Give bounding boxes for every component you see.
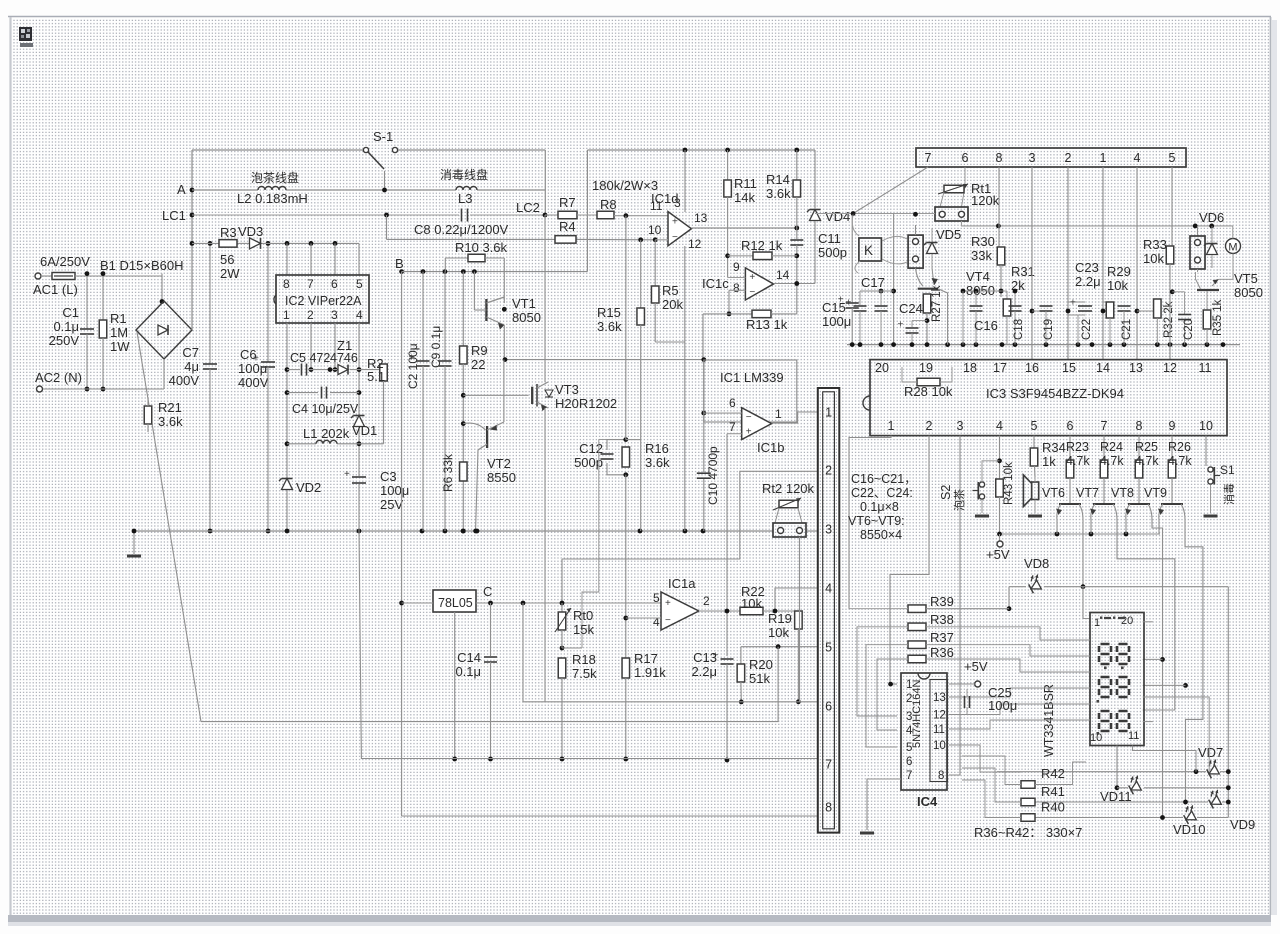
svg-text:VD6: VD6: [1199, 210, 1224, 225]
wire IC2 pin4 column: [358, 323, 360, 476]
transistor VT5: [1197, 289, 1219, 291]
resistor R18: [558, 658, 566, 678]
resistor R20: [740, 647, 742, 664]
svg-text:−: −: [746, 412, 752, 423]
svg-text:VD1: VD1: [352, 423, 377, 438]
transistor VT8: [1138, 478, 1140, 503]
svg-text:R9: R9: [471, 343, 488, 358]
resistor R34: [1033, 436, 1035, 448]
wire AC1 to bridge: [161, 274, 163, 301]
wire Rt2 to bus6: [799, 537, 801, 702]
svg-text:51k: 51k: [749, 671, 770, 686]
capacitor C3: [352, 476, 366, 478]
wire VT3 collector emitter: [544, 215, 546, 382]
ground main: [133, 531, 135, 554]
svg-text:12: 12: [1163, 361, 1177, 375]
svg-text:3.6k: 3.6k: [645, 455, 670, 470]
svg-text:11: 11: [1199, 361, 1212, 375]
svg-text:2: 2: [1065, 151, 1072, 165]
svg-text:100μ: 100μ: [988, 698, 1017, 713]
svg-text:+: +: [672, 216, 678, 227]
svg-text:4: 4: [996, 419, 1003, 433]
svg-text:R39: R39: [930, 594, 954, 609]
capacitor C18: [1014, 291, 1016, 305]
svg-text:R29: R29: [1107, 264, 1131, 279]
node top rail dots: [683, 148, 688, 153]
svg-text:R19: R19: [768, 611, 792, 626]
display digits row3: [1099, 711, 1111, 731]
wire 78L05 gnd: [454, 612, 456, 759]
IC1 LM339 box: [704, 360, 797, 422]
node R4 line dots: [638, 237, 643, 242]
wire bridge minus diagonal: [137, 332, 201, 722]
svg-text:IC2 VIPer22A: IC2 VIPer22A: [285, 294, 362, 308]
wire IC4 right routes: [949, 688, 1083, 697]
svg-text:2: 2: [307, 308, 314, 322]
thermistor Rt0: [561, 603, 563, 612]
resistor R41: [1021, 798, 1035, 806]
svg-text:0.1μ: 0.1μ: [53, 319, 79, 334]
capacitor C10: [697, 472, 711, 474]
svg-text:100μ: 100μ: [822, 314, 851, 329]
svg-text:R42: R42: [1041, 766, 1065, 781]
resistor R40: [1021, 814, 1035, 822]
relay K: [859, 238, 882, 261]
svg-text:2: 2: [926, 419, 933, 433]
wire relay row line: [962, 221, 1233, 226]
svg-text:78L05: 78L05: [438, 596, 473, 610]
resistor R32: [1137, 310, 1157, 312]
svg-text:0.1μ×8: 0.1μ×8: [860, 500, 899, 514]
svg-text:25V: 25V: [380, 497, 403, 512]
ground S2: [975, 515, 989, 518]
svg-text:5: 5: [1031, 419, 1038, 433]
svg-text:9: 9: [1169, 419, 1176, 433]
LED VD8: [1009, 586, 1026, 588]
svg-text:5: 5: [825, 641, 832, 655]
LED VD7: [997, 771, 1206, 773]
svg-text:Rt2 120k: Rt2 120k: [762, 481, 815, 496]
svg-text:7: 7: [906, 770, 912, 782]
svg-text:IC1a: IC1a: [668, 576, 696, 591]
svg-text:8: 8: [996, 151, 1003, 165]
wire IC1a output: [699, 610, 740, 612]
svg-text:5: 5: [1169, 151, 1176, 165]
svg-text:IC1b: IC1b: [757, 440, 784, 455]
resistor R27: [923, 294, 931, 313]
svg-text:C22、C24:: C22、C24:: [851, 486, 913, 500]
svg-text:100μ: 100μ: [380, 483, 409, 498]
wire main ground rail bus3: [134, 530, 773, 532]
resistor R14: [796, 150, 798, 180]
zener VD1: [354, 416, 365, 427]
svg-text:500p: 500p: [818, 245, 847, 260]
svg-text:R13 1k: R13 1k: [746, 317, 788, 332]
svg-text:10k: 10k: [768, 625, 789, 640]
capacitor C8: [461, 209, 463, 222]
svg-text:R3: R3: [220, 225, 237, 240]
resistor R43: [996, 479, 1004, 497]
display side ticks: [1083, 639, 1090, 641]
thermistor Rt1: [944, 185, 964, 193]
resistor R12: [725, 253, 730, 258]
ground speaker: [1028, 515, 1042, 518]
wire VD4 node to plug: [815, 213, 935, 215]
svg-text:1: 1: [283, 308, 290, 322]
svg-text:R20: R20: [749, 657, 773, 672]
page right border: [1270, 17, 1272, 915]
page bottom shadow: [8, 915, 1271, 922]
svg-text:C24: C24: [899, 301, 923, 316]
svg-text:5: 5: [906, 742, 912, 754]
svg-text:12: 12: [688, 237, 702, 251]
wire right vertical x545: [544, 150, 546, 215]
motor M: [1226, 239, 1241, 254]
resistor R22: [740, 607, 763, 615]
wire IC1c plus input: [728, 277, 746, 279]
svg-text:C16: C16: [974, 318, 998, 333]
transistor VT2: [461, 421, 466, 426]
svg-text:R27 1k: R27 1k: [931, 285, 943, 322]
resistor R25: [1138, 436, 1140, 460]
svg-text:R17: R17: [634, 651, 658, 666]
LED VD9: [1035, 801, 1208, 803]
wire C12 top column: [582, 440, 607, 648]
svg-text:R38: R38: [930, 612, 954, 627]
svg-text:B: B: [395, 256, 404, 271]
plug VD5: [908, 235, 923, 268]
resistor R13: [703, 313, 752, 315]
svg-text:R18: R18: [572, 652, 596, 667]
svg-text:K: K: [864, 243, 873, 258]
resistor R17: [622, 658, 630, 678]
svg-text:C23: C23: [1075, 260, 1099, 275]
svg-text:4μ: 4μ: [184, 359, 199, 374]
svg-text:3: 3: [906, 711, 912, 723]
wire pin4 column x1137: [1136, 167, 1138, 360]
capacitor C12: [607, 440, 626, 450]
capacitor C13: [721, 658, 734, 660]
wire VT4 emitter: [938, 289, 948, 345]
svg-text:4: 4: [825, 582, 832, 596]
wire top rail: [192, 149, 363, 151]
wire left vertical main: [191, 150, 193, 330]
svg-text:VT7: VT7: [1076, 486, 1099, 500]
resistor R2: [383, 364, 385, 370]
wire IC2 pin2 stub: [310, 323, 312, 370]
capacitor C11: [796, 228, 798, 239]
svg-text:15: 15: [1062, 361, 1076, 375]
svg-text:9: 9: [733, 260, 740, 274]
svg-text:C14: C14: [457, 650, 481, 665]
op-amp IC1a: [661, 592, 699, 630]
op-amp IC1b: [742, 408, 772, 440]
wire 5V emitter line: [1000, 533, 1161, 535]
svg-text:4: 4: [356, 308, 363, 322]
svg-text:+: +: [838, 295, 844, 306]
wire R38 right route: [926, 627, 1083, 640]
wire bus6 line: [523, 603, 818, 702]
svg-text:VD2: VD2: [296, 480, 321, 495]
svg-text:VT3: VT3: [555, 382, 579, 397]
svg-text:11: 11: [1128, 730, 1139, 742]
resistor R3: [219, 240, 237, 248]
svg-text:7: 7: [729, 420, 736, 434]
svg-text:1.91k: 1.91k: [634, 665, 666, 680]
capacitor C14: [490, 603, 492, 656]
wire VT6 collector: [1082, 520, 1084, 587]
wire top rail right segment: [587, 149, 815, 151]
svg-text:17: 17: [993, 361, 1007, 375]
zener VD4: [814, 150, 816, 208]
svg-text:+: +: [898, 320, 904, 331]
svg-text:C11: C11: [818, 231, 841, 246]
svg-text:7: 7: [925, 151, 932, 165]
zener VD6: [1207, 244, 1218, 255]
diode VD3: [250, 238, 261, 249]
speaker HTD: [1032, 482, 1039, 500]
wire display bottom to VD11: [1116, 746, 1118, 788]
inductor L1: [316, 440, 337, 443]
svg-text:4: 4: [653, 615, 660, 629]
wire bus7 line: [359, 531, 818, 759]
zener VD5: [927, 243, 938, 254]
svg-text:C13: C13: [693, 650, 717, 665]
svg-text:C4 10μ/25V: C4 10μ/25V: [292, 402, 359, 416]
svg-text:3: 3: [957, 419, 964, 433]
page left border: [9, 17, 11, 915]
capacitor C4: [321, 387, 323, 399]
svg-text:C18: C18: [1013, 319, 1025, 340]
svg-text:8050: 8050: [1234, 285, 1263, 300]
resistor R11: [727, 150, 729, 180]
svg-text:R12 1k: R12 1k: [741, 238, 783, 253]
wire diag to pin7: [853, 167, 928, 214]
wire IC1b plus input: [727, 433, 742, 435]
svg-text:2: 2: [825, 464, 832, 478]
svg-text:VT9: VT9: [1144, 486, 1167, 500]
op-amp IC1c: [745, 268, 773, 300]
capacitor C16: [976, 290, 1001, 292]
resistor R9: [462, 272, 464, 346]
svg-text:C5 472: C5 472: [290, 351, 330, 365]
svg-text:3.6k: 3.6k: [766, 186, 791, 201]
wire LC1 tap column to C12: [625, 216, 627, 440]
wire B column down: [401, 272, 403, 816]
LED VD10: [1035, 817, 1183, 819]
svg-text:6: 6: [825, 700, 832, 714]
resistor R36: [908, 655, 926, 663]
svg-text:1: 1: [906, 679, 912, 691]
svg-text:R43 10k: R43 10k: [1003, 462, 1015, 505]
svg-text:13: 13: [694, 211, 708, 225]
svg-text:R32 2k: R32 2k: [1163, 301, 1175, 338]
svg-text:5.1: 5.1: [367, 369, 385, 384]
svg-text:14: 14: [1096, 361, 1110, 375]
svg-text:11: 11: [933, 724, 945, 736]
svg-text:5N74HC164N: 5N74HC164N: [911, 679, 923, 748]
wire pin6 to Rt1 plug: [962, 167, 966, 207]
wire pin1 column x1103: [1102, 167, 1104, 360]
switch S-1: [363, 147, 368, 152]
switch S2: [982, 461, 1000, 481]
resistor R15: [640, 240, 642, 308]
svg-text:56: 56: [220, 252, 234, 267]
resistor R38: [908, 623, 926, 631]
wire bus8 line: [402, 815, 818, 817]
svg-text:4: 4: [906, 725, 913, 737]
svg-text:C1: C1: [62, 305, 79, 320]
svg-text:VT8: VT8: [1111, 486, 1134, 500]
wire IC3 pin2 route: [890, 436, 929, 684]
wire IC1d output: [691, 227, 796, 229]
svg-text:1: 1: [1094, 617, 1100, 629]
svg-text:8550: 8550: [487, 470, 516, 485]
wire VD8 to R39: [1008, 587, 1010, 609]
plug Rt1: [935, 207, 968, 221]
svg-text:C: C: [483, 584, 492, 599]
svg-text:−: −: [665, 615, 671, 626]
svg-text:1: 1: [775, 407, 782, 421]
svg-text:+: +: [344, 469, 350, 480]
wire IC1c minus input: [729, 289, 745, 291]
svg-text:消毒线盘: 消毒线盘: [440, 167, 488, 182]
svg-text:1k: 1k: [1042, 454, 1056, 469]
svg-text:C12: C12: [579, 441, 603, 456]
svg-text:5: 5: [356, 277, 363, 291]
svg-text:+: +: [746, 426, 752, 437]
svg-text:WT3341BSR: WT3341BSR: [1042, 684, 1056, 757]
svg-text:3: 3: [1029, 151, 1036, 165]
svg-text:LC2: LC2: [516, 200, 540, 215]
wire VT4 base from R30: [963, 290, 1001, 292]
svg-text:6: 6: [962, 151, 969, 165]
svg-text:AC1 (L): AC1 (L): [33, 282, 78, 297]
wire IC4 pin7 ground: [867, 779, 901, 830]
wire IC2 top pin stubs: [286, 243, 288, 275]
svg-text:C3: C3: [380, 469, 397, 484]
resistor R7: [545, 214, 558, 216]
wire C line 5V: [476, 602, 661, 604]
svg-text:8050: 8050: [966, 283, 995, 298]
svg-text:+: +: [749, 272, 755, 283]
svg-text:VD4: VD4: [825, 209, 850, 224]
svg-text:0.1μ: 0.1μ: [455, 664, 481, 679]
svg-text:400V: 400V: [169, 373, 200, 388]
svg-text:3.6k: 3.6k: [597, 319, 622, 334]
wire VT8 collector: [1152, 520, 1163, 818]
capacitor C21: [1110, 310, 1124, 312]
svg-text:L1 202k: L1 202k: [303, 426, 350, 441]
resistor R16: [623, 437, 628, 442]
wire rail to node B: [586, 150, 588, 272]
wire R37 right route: [926, 645, 1083, 656]
svg-text:4.7k: 4.7k: [1135, 454, 1159, 468]
wire bus5 line: [741, 646, 818, 648]
svg-text:8: 8: [938, 770, 944, 782]
wire R36-R38 left loops: [857, 627, 908, 716]
svg-text:AC2 (N): AC2 (N): [35, 370, 82, 385]
transistor VT1: [485, 299, 487, 321]
svg-text:10: 10: [1090, 732, 1102, 744]
svg-text:消毒: 消毒: [1222, 483, 1236, 505]
svg-text:400V: 400V: [238, 375, 269, 390]
svg-text:泡茶线盘: 泡茶线盘: [251, 170, 299, 185]
resistor R19: [795, 611, 803, 629]
display digits row2: [1099, 677, 1111, 697]
svg-text:R26: R26: [1168, 440, 1191, 454]
svg-text:10: 10: [648, 223, 662, 237]
svg-text:R23: R23: [1066, 440, 1089, 454]
svg-text:4: 4: [1134, 151, 1141, 165]
wire R4 line from LC1: [384, 213, 389, 218]
svg-text:−: −: [672, 232, 678, 243]
zener Z1: [338, 365, 348, 375]
svg-text:R35 1k: R35 1k: [1212, 299, 1224, 336]
svg-text:15k: 15k: [573, 622, 594, 637]
svg-text:C17: C17: [861, 275, 885, 290]
resistor R39: [908, 605, 926, 613]
plug VD6: [1190, 236, 1205, 269]
IC3 S3F9454 box: [870, 360, 1227, 436]
svg-text:C20: C20: [1183, 319, 1195, 340]
svg-text:S-1: S-1: [373, 129, 393, 144]
svg-text:VT4: VT4: [966, 269, 990, 284]
svg-text:L2 0.183mH: L2 0.183mH: [237, 191, 308, 206]
svg-text:VT1: VT1: [512, 296, 536, 311]
svg-text:+: +: [846, 298, 852, 309]
svg-text:10k: 10k: [1143, 251, 1164, 266]
svg-text:VD9: VD9: [1230, 817, 1255, 832]
svg-text:+: +: [253, 354, 259, 365]
switch S1: [1205, 436, 1207, 466]
svg-text:4.7k: 4.7k: [1066, 454, 1090, 468]
svg-text:R30: R30: [971, 234, 995, 249]
wire C4 line: [287, 392, 318, 394]
terminal +5V IC4: [975, 681, 981, 687]
svg-text:R36~R42： 330×7: R36~R42： 330×7: [974, 825, 1082, 840]
svg-text:1: 1: [1100, 151, 1107, 165]
wire pin8 column: [998, 167, 1000, 247]
corner icon: [19, 27, 32, 41]
svg-text:R41: R41: [1041, 784, 1065, 799]
svg-text:3: 3: [825, 523, 832, 537]
svg-text:C7: C7: [182, 345, 199, 360]
IC2 VIPer22A: [276, 275, 369, 323]
svg-text:19: 19: [919, 361, 933, 375]
svg-text:C16~C21，: C16~C21，: [851, 472, 917, 486]
node R3 line dots: [285, 241, 290, 246]
svg-text:R14: R14: [766, 172, 790, 187]
svg-text:10: 10: [1199, 419, 1213, 433]
svg-text:33k: 33k: [971, 248, 992, 263]
svg-text:+5V: +5V: [964, 659, 988, 674]
wire VT9 collector: [1185, 520, 1203, 802]
resistor R24: [1103, 436, 1105, 460]
svg-text:Rt0: Rt0: [573, 608, 593, 623]
wire VD7 drop: [1143, 697, 1210, 772]
svg-text:1: 1: [825, 406, 832, 420]
svg-text:20: 20: [1121, 615, 1133, 627]
svg-text:LC1: LC1: [162, 208, 186, 223]
wire IC1c output: [774, 283, 816, 285]
wire IC2 pin3 stub: [334, 323, 336, 370]
svg-text:M: M: [1228, 242, 1237, 254]
resistor R23: [1069, 436, 1071, 460]
svg-text:C8 0.22μ/1200V: C8 0.22μ/1200V: [414, 222, 509, 237]
wire VD8 line to LED column: [1227, 587, 1229, 818]
wire IC2 pin1 column: [286, 323, 288, 531]
